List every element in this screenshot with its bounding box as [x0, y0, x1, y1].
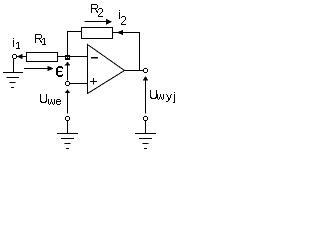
arrow: voltage Uwe [65, 89, 71, 113]
terminal: output [143, 68, 148, 73]
resistor R2 [82, 28, 113, 39]
op-amp U1 [88, 45, 125, 94]
label Uwyj [150, 90, 175, 103]
wire: input terminal to R1 [16, 56, 27, 58]
arrow: voltage across R1 [24, 66, 54, 72]
arrow: voltage Uwyj [143, 76, 149, 114]
wire: R1 to node A [58, 56, 66, 58]
arrow: current i1 [17, 54, 23, 60]
ground: left [3, 73, 23, 88]
wire: Uwe lower terminal to ground [67, 121, 69, 135]
arrow: current direction over R2 [85, 19, 113, 25]
terminal: input [12, 54, 17, 59]
label Uwe [40, 94, 61, 105]
label i2 [119, 10, 126, 25]
label epsilon [56, 66, 63, 77]
label i1 [13, 38, 20, 49]
wire: feedback vertical down to output [139, 33, 141, 72]
wire: node A up to feedback branch [67, 32, 69, 56]
wire: Uwyj lower terminal to ground [145, 121, 147, 135]
op-amp non-inverting pin plus sign [90, 78, 97, 85]
wire: non-inverting input terminal to op-amp [70, 83, 88, 85]
op-amp inverting pin minus sign [91, 57, 98, 59]
terminal: Uwe lower [65, 116, 70, 121]
wire: feedback branch to R2 [67, 31, 82, 33]
wire: R2 right side to corner [113, 32, 141, 34]
arrow: current i2 [117, 30, 123, 36]
ground: right [135, 134, 156, 149]
resistor R1 [27, 53, 58, 62]
node A: junction dot at inverting input [65, 55, 70, 60]
wire: op-amp output to output terminal [125, 70, 144, 72]
ground: middle [57, 134, 78, 149]
label R1 [35, 34, 46, 45]
wire: node A to op-amp inverting input [70, 56, 88, 58]
arrow: epsilon differential voltage [65, 62, 71, 81]
wire: input terminal down to ground [13, 59, 15, 74]
label R2 [91, 4, 103, 17]
terminal: non-inverting input [65, 81, 70, 86]
terminal: Uwyj lower [143, 116, 148, 121]
